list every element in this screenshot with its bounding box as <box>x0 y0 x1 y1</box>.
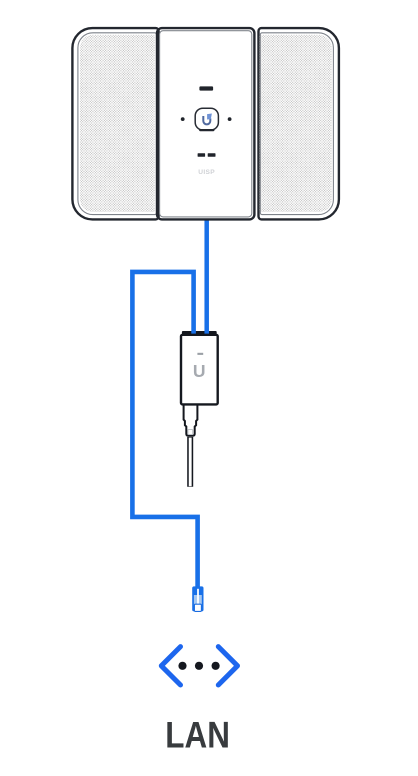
svg-text:LAN: LAN <box>165 713 230 755</box>
svg-text:UISP: UISP <box>198 169 215 176</box>
DC power plug below injector <box>184 404 198 435</box>
right screw dot on device face <box>228 117 232 121</box>
dual port bars on device face <box>198 153 206 156</box>
device U1: UISP antenna center body panel <box>157 28 254 219</box>
device U1: UISP antenna left radome panel <box>72 28 158 219</box>
device U1: UISP antenna panel fills <box>72 28 339 219</box>
UISP "U" logo glyph (blue) inside button <box>203 114 212 125</box>
LED bar on device face <box>199 86 213 90</box>
wire: ethernet cable B (PoE injector LAN port to RJ45 plug) <box>132 272 197 588</box>
device U1: UISP antenna right radome panel <box>259 28 339 219</box>
PoE injector U2: body <box>181 335 218 405</box>
PoE injector LED dash <box>197 353 203 355</box>
LAN network icon: left chevron <box>161 647 180 685</box>
PoE injector U2: top cable-gland bar <box>182 331 217 336</box>
logo button (squircle) on device face <box>195 108 218 130</box>
left screw dot on device face <box>181 117 185 121</box>
LAN network icon: dots <box>178 662 186 670</box>
RJ45 plug P1 (blue) <box>192 586 203 611</box>
LAN network icon: right chevron <box>218 647 237 685</box>
DC power cord <box>187 437 193 487</box>
svg-text:U: U <box>193 361 206 381</box>
wire: ethernet cable A (device to PoE injector) <box>204 219 209 336</box>
